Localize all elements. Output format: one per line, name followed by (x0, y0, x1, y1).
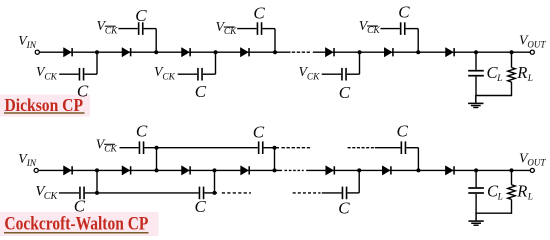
resistor RL (CW) (508, 185, 515, 200)
wire: RL bottom lead (Dickson) (511, 82, 513, 96)
diode D5 (CW) (326, 166, 335, 175)
wire: CW bottom rail seg5 (347, 192, 359, 194)
terminal VIN (CW) (34, 168, 38, 172)
wire: cap lead right, stage 4 (Dickson) (262, 28, 275, 30)
svg-text:CK: CK (44, 191, 59, 202)
title Cockcroft-Walton CP (4, 215, 149, 235)
wire: CW vertical at x=156.5 (156, 148, 158, 171)
capacitor C stage 6 (Dickson) (400, 22, 406, 35)
svg-text:CK: CK (307, 72, 320, 82)
node junction stage 4 (Dickson) (273, 50, 277, 54)
wire: Dickson main rail right of break (313, 51, 530, 53)
wire: cap lead left, stage 3 (Dickson) (178, 73, 197, 75)
svg-text:C: C (136, 121, 148, 140)
diode D7 (CW) (445, 166, 454, 175)
terminal VOUT (Dickson) (530, 50, 534, 54)
node junction stage 2 (Dickson) (154, 50, 158, 54)
wire: CW top rail seg1 (120, 147, 139, 149)
diode D4 (Dickson) (240, 48, 249, 57)
diode D5 (Dickson) (325, 48, 334, 57)
node junction x=97 (CW main) (95, 168, 99, 172)
svg-text:CK: CK (224, 27, 237, 37)
wire: CW top rail dashed break 1 (282, 147, 311, 149)
svg-text:IN: IN (26, 41, 37, 51)
svg-text:L: L (527, 192, 533, 202)
svg-text:C: C (253, 4, 265, 23)
diode D4 (CW) (241, 166, 250, 175)
capacitor C2 top rail (CW) (258, 141, 264, 154)
node junction stage 3 (Dickson) (214, 50, 218, 54)
node junction x=359.2 (CW main) (357, 168, 361, 172)
node CL junction (CW) (474, 168, 478, 172)
wire: CW top rail seg2 (144, 147, 257, 149)
wire: cap lead right, stage 2 (Dickson) (144, 28, 157, 30)
wire: cap lead left, stage 1 (Dickson) (59, 73, 78, 75)
svg-text:C: C (338, 199, 350, 218)
diode D2 (Dickson) (122, 48, 131, 57)
node RL junction (CW) (510, 168, 514, 172)
wire: CW vertical at x=418.4 (417, 148, 419, 171)
ground (CW output) (468, 213, 483, 226)
wire: RL top lead (Dickson) (511, 52, 513, 67)
wire: cap lead left, stage 4 (Dickson) (237, 28, 256, 30)
node junction x=214.5 (CW main) (213, 168, 217, 172)
diode D2 (CW) (122, 166, 131, 175)
diode D6 (Dickson) (384, 48, 393, 57)
svg-text:CK: CK (104, 144, 117, 154)
svg-text:L: L (527, 74, 533, 84)
wire: CW top rail seg4 (375, 147, 401, 149)
wire: CW top rail seg3 (264, 147, 279, 149)
node junction stage 6 (Dickson) (416, 50, 420, 54)
diode D3 (Dickson) (182, 48, 191, 57)
wire: vertical stub at stage junction 4 (Dickson) (274, 29, 276, 53)
svg-text:R: R (516, 181, 527, 200)
svg-text:C: C (398, 3, 410, 22)
wire: CW main rail dashed break (285, 169, 304, 171)
title highlight backgrounds (drawn first, behind circuit) (0, 95, 90, 117)
svg-text:OUT: OUT (527, 39, 546, 49)
wire: CW bottom rail dashed break 1 (222, 192, 251, 194)
capacitor CL (Dickson) (468, 70, 484, 77)
capacitor CL (CW) (468, 187, 484, 194)
resistor RL (Dickson) (508, 68, 515, 83)
wire: vertical stub at stage junction 2 (Dickson) (155, 29, 157, 53)
wire: CL top lead (Dickson) (475, 52, 477, 70)
capacitor C1 bottom rail (CW) (79, 187, 85, 200)
svg-text:CK: CK (162, 72, 175, 82)
wire: CW vertical at x=214.5 (214, 170, 216, 193)
svg-text:Cockcroft-Walton CP: Cockcroft-Walton CP (4, 215, 148, 235)
diode D1 (Dickson) (64, 48, 73, 57)
svg-text:L: L (497, 192, 503, 202)
node junction x=156.5 (CW main) (155, 168, 159, 172)
wire: CW bottom rail seg4 (322, 192, 342, 194)
node junction stage 5 (Dickson) (358, 50, 362, 54)
wire: cap lead right, stage 3 (Dickson) (203, 73, 216, 75)
node junction x=418.4 (CW main) (416, 168, 420, 172)
diode D3 (CW) (182, 166, 191, 175)
label R_L (CW) (516, 181, 533, 202)
wire: CW top rail dashed break 2 (348, 147, 374, 149)
terminal VIN (Dickson) (35, 50, 39, 54)
node junction stage 1 (Dickson) (95, 50, 99, 54)
wire: CW top rail seg5 (406, 147, 418, 149)
capacitor C1 top rail (CW) (139, 141, 145, 154)
label V_OUT (CW) (519, 150, 546, 167)
wire: CW bottom rail seg1 (59, 192, 79, 194)
capacitor C stage 2 (Dickson) (138, 22, 144, 35)
capacitor C3 bottom rail (CW) (342, 187, 348, 200)
svg-text:Dickson CP: Dickson CP (5, 95, 84, 115)
terminal VOUT (CW) (530, 168, 534, 172)
label V_CKbar stage6 (Dickson) (359, 18, 381, 36)
wire: vertical stub at stage junction 6 (Dickson) (417, 29, 419, 53)
node junction top rail 2 (CW) (273, 146, 277, 150)
wire: CL bottom lead (CW) (475, 194, 477, 213)
node junction top rail 1 (CW) (155, 146, 159, 150)
diode D6 (CW) (382, 166, 391, 175)
wire: output bottom rail (CW) (475, 212, 511, 214)
node CL junction (Dickson) (474, 50, 478, 54)
label V_CK (CW) (35, 183, 58, 202)
label V_CK stage3 (Dickson) (154, 64, 176, 82)
label V_IN (CW) (18, 151, 37, 169)
svg-text:CK: CK (105, 26, 118, 36)
capacitor C stage 3 (Dickson) (197, 68, 203, 81)
wire: CW vertical at x=359.2 (358, 170, 360, 193)
label V_CKbar stage2 (Dickson) (97, 18, 119, 36)
capacitor C stage 1 (Dickson) (79, 68, 85, 81)
capacitor C stage 4 (Dickson) (257, 22, 263, 35)
label V_CKbar stage4 (Dickson) (216, 19, 238, 37)
ground (Dickson output) (468, 96, 483, 109)
svg-text:C: C (74, 196, 86, 215)
wire: CL top lead (CW) (475, 170, 477, 187)
label V_IN (Dickson) (18, 33, 37, 51)
label V_CK stage5 (Dickson) (299, 64, 321, 82)
wire: cap lead right, stage 5 (Dickson) (347, 73, 360, 75)
title Dickson CP (4, 95, 85, 115)
wire: output bottom rail (Dickson) (475, 95, 511, 97)
capacitor C2 bottom rail (CW) (199, 187, 205, 200)
svg-text:C: C (253, 122, 265, 141)
wire: Dickson main rail left of break (39, 51, 290, 53)
svg-text:R: R (516, 63, 527, 82)
svg-text:C: C (135, 6, 147, 25)
svg-text:IN: IN (26, 159, 37, 169)
wire: RL top lead (CW) (511, 170, 513, 184)
capacitor C3 top rail (CW) (401, 141, 407, 154)
wire: cap lead right, stage 1 (Dickson) (84, 73, 97, 75)
wire: cap lead left, stage 2 (Dickson) (118, 28, 137, 30)
wire: cap lead left, stage 6 (Dickson) (380, 28, 399, 30)
wire: CW bottom rail seg3 (204, 192, 217, 194)
diode D1 (CW) (64, 166, 73, 175)
label R_L (Dickson) (516, 63, 533, 84)
wire: CW vertical at x=274.5 (274, 148, 276, 171)
label C_L (Dickson) (487, 63, 503, 84)
wire: cap lead left, stage 5 (Dickson) (322, 73, 341, 75)
wire: vertical stub at stage junction 5 (Dickson) (359, 52, 361, 74)
svg-text:L: L (496, 74, 502, 84)
svg-text:C: C (397, 122, 409, 141)
svg-text:CK: CK (367, 26, 380, 36)
wire: CW main rail right of break (306, 169, 530, 171)
svg-text:C: C (195, 82, 207, 101)
label C_L (CW) (487, 181, 503, 202)
wire: CW vertical at x=97 (96, 170, 98, 193)
node junction bottom rail 2 (CW) (213, 191, 217, 195)
wire: RL bottom lead (CW) (511, 199, 513, 214)
wire: CW bottom rail dashed break 2 (293, 192, 321, 194)
wire: CW bottom rail seg2 (85, 192, 199, 194)
diode D7 (Dickson) (446, 48, 455, 57)
wire: CW main rail left of break (39, 169, 282, 171)
capacitor C stage 5 (Dickson) (341, 68, 347, 81)
svg-text:C: C (339, 83, 351, 102)
wire: Dickson main rail dashed break (292, 51, 310, 53)
svg-text:C: C (195, 197, 207, 216)
node RL junction (Dickson) (510, 50, 514, 54)
svg-text:CK: CK (44, 72, 57, 82)
wire: vertical stub at stage junction 1 (Dickson) (96, 52, 98, 74)
wire: vertical stub at stage junction 3 (Dickson) (215, 52, 217, 74)
label V_OUT (Dickson) (519, 32, 546, 49)
wire: cap lead right, stage 6 (Dickson) (406, 28, 419, 30)
label V_CK stage1 (Dickson) (36, 64, 58, 82)
svg-text:OUT: OUT (527, 158, 546, 168)
label V_CKbar (CW) (96, 136, 118, 154)
node junction bottom rail 1 (CW) (95, 191, 99, 195)
node junction x=274.5 (CW main) (273, 168, 277, 172)
wire: CL bottom lead (Dickson) (475, 77, 477, 96)
